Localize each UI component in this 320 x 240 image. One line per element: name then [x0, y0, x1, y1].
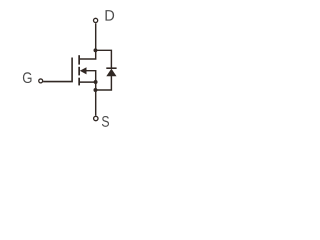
label S: [102, 116, 109, 127]
terminal S: [94, 116, 98, 120]
terminal G: [39, 79, 43, 83]
wire body-to-source (right, down to source node, on to S): [86, 71, 96, 116]
junction dot source/diode: [94, 88, 98, 92]
channel segment middle: [78, 67, 80, 76]
label D: [106, 10, 115, 20]
wire source stub: [79, 81, 96, 83]
channel segment bottom: [78, 78, 80, 86]
junction dot source stub: [94, 80, 98, 84]
diode body-diode triangle (anode, pointing up): [106, 69, 116, 77]
label G: [23, 72, 32, 83]
junction dot drain/diode: [94, 48, 98, 52]
wire diode bottom branch: [95, 76, 111, 90]
wire gate lead and gate electrode: [43, 58, 72, 82]
wire drain (vertical from D circle down, corner left to channel): [79, 23, 96, 59]
body arrow (points left at middle segment): [80, 67, 87, 74]
diode body-diode cathode bar: [106, 67, 116, 69]
terminal D: [94, 18, 98, 22]
wire diode top branch: [95, 50, 111, 68]
channel segment top: [78, 55, 80, 64]
